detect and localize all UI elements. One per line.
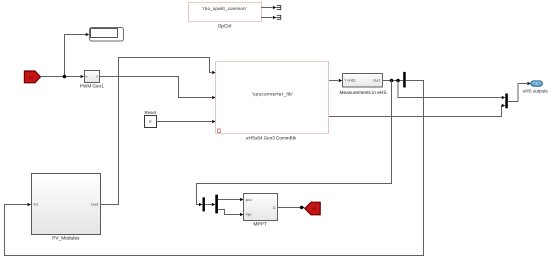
terminator T2 <box>276 15 280 20</box>
svg-text:PV_Modules: PV_Modules <box>52 235 80 241</box>
wire PV out to eHS in1 <box>100 58 215 205</box>
junction dot A <box>63 75 67 79</box>
svg-text:eHSx64 Gen3 CommBlk: eHSx64 Gen3 CommBlk <box>246 135 297 140</box>
wire demux2 to MPPT Vpv <box>218 210 244 217</box>
svg-text:Out1: Out1 <box>373 79 380 83</box>
terminator T1 <box>276 5 280 10</box>
scope viewer block <box>90 28 124 42</box>
wire demux2 to MPPT Ipv1 <box>218 198 244 201</box>
demux bar 1 <box>203 197 205 211</box>
svg-text:'cpuconverter_lib': 'cpuconverter_lib' <box>252 91 294 96</box>
wire MPPT D to goto tag <box>277 206 305 209</box>
eHS corner icon <box>218 129 221 133</box>
svg-text:PWM Gen1: PWM Gen1 <box>80 84 104 89</box>
svg-text:'rtio_opalrt_common': 'rtio_opalrt_common' <box>202 6 247 11</box>
wire feedback to PV in <box>5 81 424 256</box>
block Reset constant <box>145 110 157 128</box>
mux bar B <box>505 94 508 109</box>
mux bar A <box>403 72 406 88</box>
svg-text:Reset: Reset <box>145 110 157 115</box>
block Measurements in eHS <box>340 74 387 96</box>
svg-text:In1: In1 <box>34 203 39 207</box>
wire OpCtrl out2 <box>261 16 276 19</box>
svg-text:Out1: Out1 <box>91 203 98 207</box>
block PWM Gen1 <box>80 71 104 89</box>
wire demux1 to demux2 <box>205 203 215 206</box>
wire Measurements out to mux bar <box>382 80 403 82</box>
svg-text:Ipv1: Ipv1 <box>246 198 253 202</box>
svg-text:1: 1 <box>536 82 538 86</box>
junction dot C <box>396 79 400 83</box>
svg-text:Y eHS1: Y eHS1 <box>344 79 356 83</box>
wire measurement branch to demux <box>197 81 392 207</box>
svg-text:In1: In1 <box>29 76 34 80</box>
block PV_Modules <box>32 174 101 242</box>
svg-text:O: O <box>96 76 98 79</box>
wire eHS out2 to out mux in2 <box>329 104 505 117</box>
junction dot B <box>390 79 394 83</box>
wire branch to out mux in1 <box>398 81 505 100</box>
svg-text:Vpv: Vpv <box>246 212 252 216</box>
wire PWM to eHS in2 <box>100 77 216 100</box>
wire Reset to eHS in3 <box>156 120 216 123</box>
block eHSx64 Gen3 CommBlk <box>216 62 329 141</box>
wire OpCtrl out1 <box>261 6 276 9</box>
wire eHS out1 to Measurements <box>329 79 342 82</box>
outport eHS outputs <box>523 81 549 93</box>
svg-text:MPPT: MPPT <box>253 222 266 228</box>
svg-text:eHS outputs: eHS outputs <box>523 88 549 93</box>
block OpCtrl <box>189 3 262 30</box>
from tag In1 <box>24 71 40 83</box>
block MPPT <box>244 194 278 228</box>
svg-text:OpCtrl: OpCtrl <box>218 23 232 29</box>
wire branch to scope <box>65 33 90 77</box>
wire From to PWM <box>40 75 84 78</box>
wire mux B to outport <box>508 82 531 102</box>
svg-text:In1: In1 <box>312 207 317 211</box>
svg-text:Measurements in eHS: Measurements in eHS <box>340 90 387 96</box>
demux bar 2 <box>215 195 218 214</box>
goto tag In1 <box>305 202 320 215</box>
